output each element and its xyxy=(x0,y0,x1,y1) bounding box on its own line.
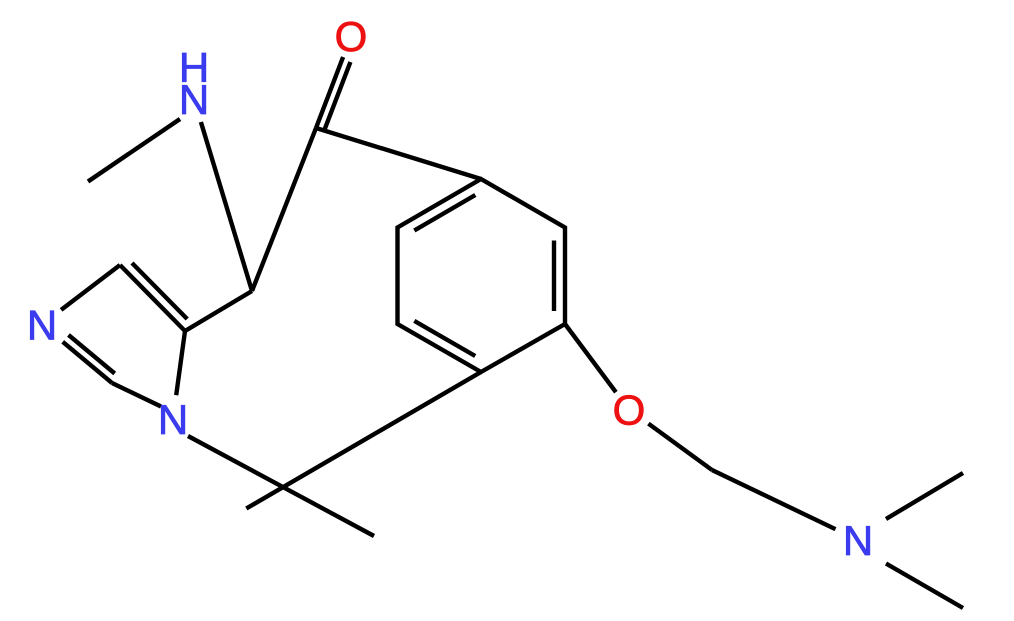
wire Cb-N2 xyxy=(61,265,120,310)
wire N4-CH3f xyxy=(886,564,963,609)
benzene ring xyxy=(398,179,566,372)
wire ArBR-O2 xyxy=(565,324,616,392)
benzene inner double bot-BL xyxy=(414,321,475,356)
wire N3 ethyl chain xyxy=(188,436,374,536)
svg-text:N: N xyxy=(158,396,188,443)
wire N2=Cim double bond xyxy=(63,342,112,383)
wire Arbot-CH2h chain xyxy=(246,372,481,509)
svg-text:N: N xyxy=(843,517,873,564)
wire O2-CH2c xyxy=(648,424,712,470)
wire CH2c-N4 xyxy=(712,470,836,529)
wire N1-J1 xyxy=(201,122,252,291)
wire Ca-J1 xyxy=(185,291,252,331)
svg-text:N: N xyxy=(179,76,209,123)
wire Ca=Cb double bond xyxy=(120,265,185,331)
wire N3-Ca xyxy=(176,331,185,395)
wire N4-CH3e xyxy=(886,473,963,519)
svg-text:O: O xyxy=(613,387,646,434)
benzene inner double TR-BR xyxy=(552,241,556,312)
wire Cim-N3 xyxy=(112,383,161,407)
wire Cco=O1 double bond xyxy=(316,57,343,128)
wire Cco-Artop chain xyxy=(316,128,481,179)
svg-text:N: N xyxy=(27,302,57,349)
wire J1-Cco xyxy=(252,128,316,291)
svg-text:O: O xyxy=(335,13,368,60)
wire N1-CH3 methyl xyxy=(88,119,180,182)
benzene inner double TL-top xyxy=(414,195,475,231)
